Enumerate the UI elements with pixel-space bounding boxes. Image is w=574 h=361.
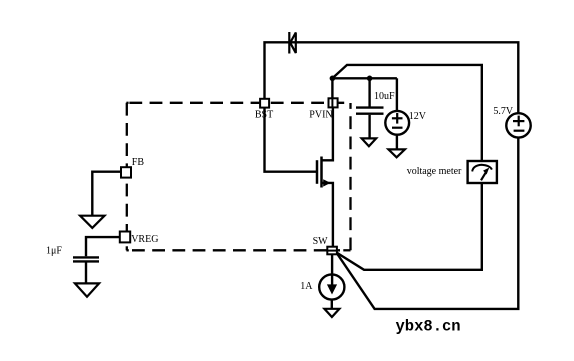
svg-text:12V: 12V <box>409 111 427 122</box>
svg-text:ybx8.cn: ybx8.cn <box>396 318 461 336</box>
svg-text:PVIN: PVIN <box>309 110 332 121</box>
svg-text:FB: FB <box>132 157 145 168</box>
svg-text:voltage meter: voltage meter <box>407 166 462 177</box>
svg-text:SW: SW <box>313 236 329 247</box>
svg-text:1μF: 1μF <box>46 246 62 257</box>
svg-text:VREG: VREG <box>131 234 158 245</box>
svg-text:5.7V: 5.7V <box>493 106 514 117</box>
svg-text:1A: 1A <box>300 281 313 292</box>
svg-text:BST: BST <box>255 110 273 121</box>
svg-text:10uF: 10uF <box>374 91 395 102</box>
